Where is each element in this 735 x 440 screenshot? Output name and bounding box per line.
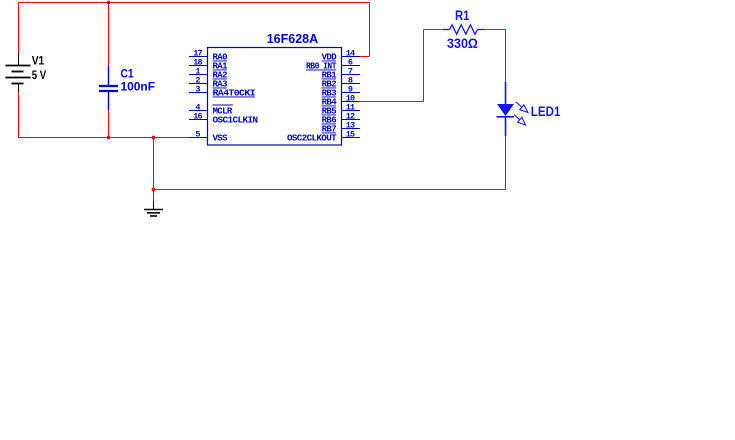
wire C1 top vertical [108,3,110,67]
svg-text:100nF: 100nF [121,80,156,94]
wire R1 left lead [424,29,444,31]
wire bottom rail VSS net [19,137,190,139]
IC left pin names [213,53,258,144]
wire LED top vertical [505,30,507,83]
svg-text:5: 5 [195,130,200,140]
svg-text:C1: C1 [121,67,134,81]
svg-text:16: 16 [193,112,202,122]
IC left pin lines [189,57,208,138]
wire R1 left vertical [423,30,425,102]
svg-text:VSS: VSS [213,134,229,144]
IC right pin lines [342,57,361,138]
svg-text:15: 15 [346,130,355,140]
svg-text:16F628A: 16F628A [267,31,319,46]
IC right pin numbers [346,49,355,140]
svg-text:R1: R1 [455,7,470,23]
node junction dot ground branch [152,136,156,140]
svg-text:V1: V1 [32,53,45,67]
capacitor C1 symbol [99,66,118,110]
node junction dot top C1 [107,1,111,5]
battery V1 symbol [6,53,31,92]
node junction dot LED rail [152,188,156,192]
wire battery bottom vertical [18,92,20,138]
svg-text:5 V: 5 V [32,68,47,82]
svg-text:OSC2CLKOUT: OSC2CLKOUT [287,134,337,144]
MCLR overline [213,104,234,106]
svg-text:LED1: LED1 [531,103,561,119]
op-amp U1 16F628A IC body [208,48,342,146]
svg-text:3: 3 [195,85,200,95]
wire battery top vertical [18,3,20,56]
LED1 emission arrow lower [514,115,526,126]
ground symbol [144,201,163,216]
svg-text:330Ω: 330Ω [447,35,478,51]
LED1 emission arrow upper [516,102,528,113]
wire top rail VDD net [19,2,370,4]
wire R1 right to LED column [484,29,506,31]
svg-text:OSC1CLKIN: OSC1CLKIN [213,116,258,126]
wire pin14 vertical to top rail [369,3,371,57]
IC right pin names [287,53,337,144]
wire LED bottom vertical [505,136,507,190]
wire RB4 horizontal [360,101,424,103]
IC left pin numbers [193,49,202,140]
wire LED bottom rail [154,189,506,191]
wire ground branch vertical [153,138,155,202]
LED1 diode symbol [497,82,515,136]
node junction dot C1 bottom [107,136,111,140]
resistor R1 symbol [443,25,484,34]
wire C1 bottom vertical [108,110,110,138]
svg-text:RA4T0CKI: RA4T0CKI [213,89,256,99]
wire pin14 VDD stub [360,56,370,58]
